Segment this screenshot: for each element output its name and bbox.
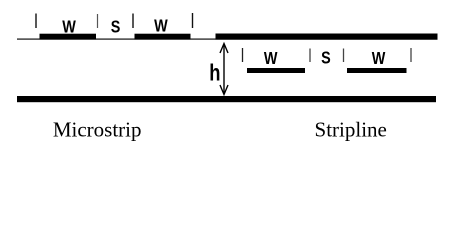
svg-text:Microstrip: Microstrip: [53, 118, 142, 142]
svg-text:h: h: [209, 61, 220, 86]
svg-text:W: W: [264, 48, 278, 68]
svg-text:W: W: [62, 17, 76, 37]
svg-text:S: S: [321, 48, 331, 68]
svg-text:Stripline: Stripline: [315, 118, 387, 142]
svg-text:S: S: [111, 17, 121, 37]
svg-text:W: W: [154, 16, 168, 36]
svg-text:W: W: [372, 49, 386, 69]
